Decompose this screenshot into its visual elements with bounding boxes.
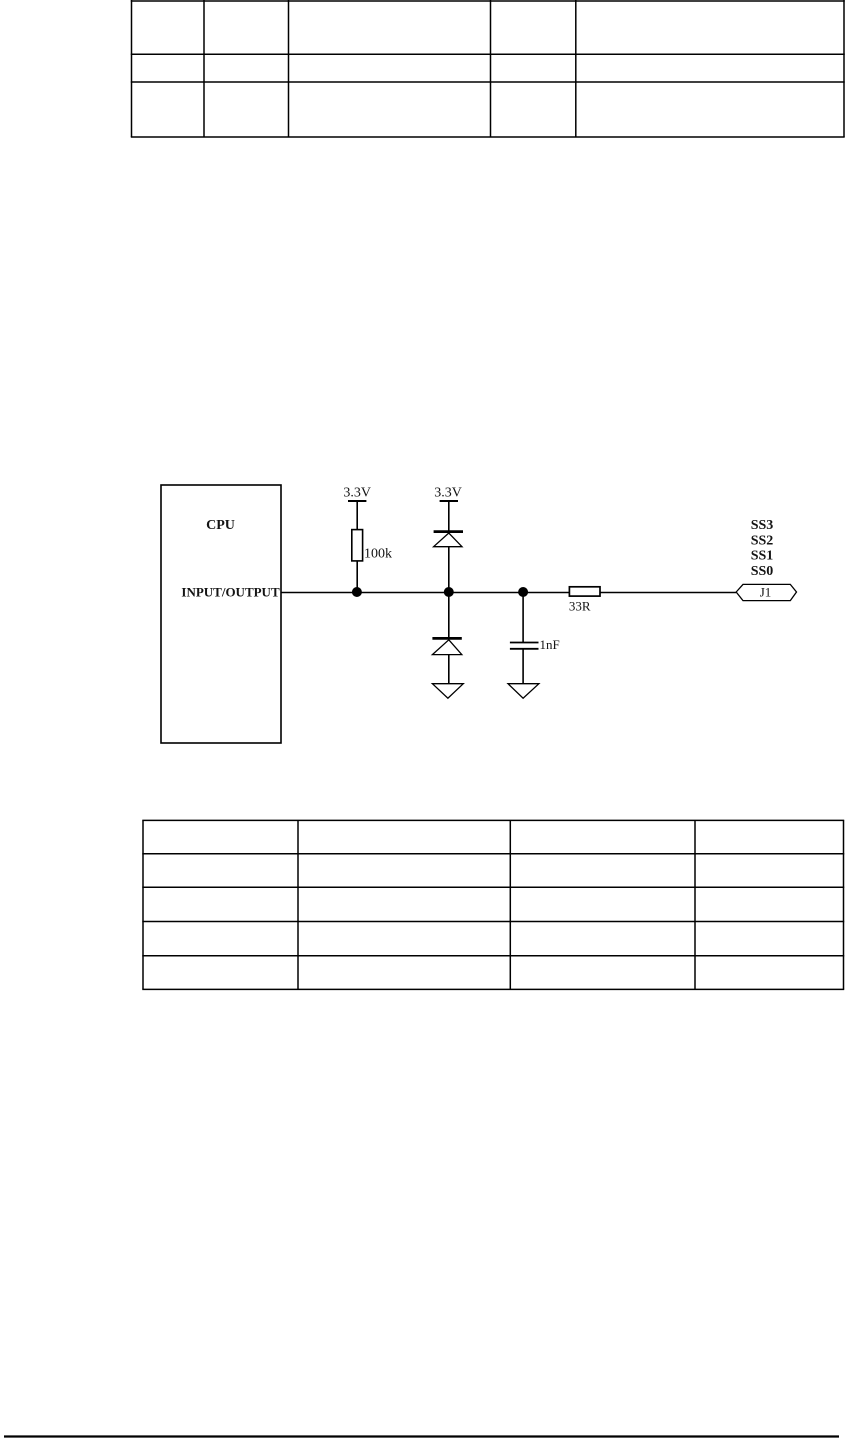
svg-text:INPUT/OUTPUT: INPUT/OUTPUT	[181, 584, 280, 599]
wire: CPU pin to resistor R2 33R	[281, 592, 569, 594]
value label 1nF	[540, 637, 560, 652]
svg-text:SS1: SS1	[751, 549, 774, 564]
junction node B (diodes to wire)	[444, 587, 454, 597]
svg-text:100k: 100k	[364, 547, 392, 562]
junction node A (resistor to wire)	[352, 587, 362, 597]
diode D1 (clamp to 3.3V, cathode up)	[434, 501, 463, 593]
connector J1 (off-page symbol)	[736, 584, 796, 600]
value label 100k	[364, 547, 392, 562]
svg-text:CPU: CPU	[206, 518, 235, 533]
value label 33R	[569, 599, 591, 614]
power symbol 3.3V (above upper clamp diode)	[434, 486, 462, 501]
capacitor C1 1nF	[510, 593, 539, 684]
svg-text:3.3V: 3.3V	[343, 486, 371, 501]
resistor R2 33R (series)	[569, 587, 600, 596]
svg-text:SS3: SS3	[751, 518, 774, 533]
ground symbol (below diode D2)	[432, 684, 463, 699]
svg-text:33R: 33R	[569, 599, 591, 614]
power symbol 3.3V (above resistor 100k)	[343, 486, 371, 501]
svg-text:SS0: SS0	[751, 564, 774, 579]
lower table (5 rows x 4 columns)	[142, 820, 844, 989]
top table (cut off at page top)	[131, 0, 845, 137]
ground symbol (below capacitor C1)	[508, 684, 539, 699]
svg-text:3.3V: 3.3V	[434, 486, 462, 501]
net labels SS3 SS2 SS1 SS0	[751, 518, 774, 579]
junction node C (capacitor to wire)	[518, 587, 528, 597]
resistor 100k (pull-up)	[352, 501, 363, 593]
INPUT/OUTPUT pin label	[181, 584, 280, 599]
svg-text:J1: J1	[760, 585, 772, 600]
svg-text:1nF: 1nF	[540, 637, 560, 652]
footer rule / page boundary line	[4, 1435, 839, 1437]
CPU label	[206, 518, 235, 533]
diode D2 (clamp to ground, cathode up)	[432, 593, 461, 684]
CPU block U1	[161, 485, 281, 743]
svg-text:SS2: SS2	[751, 533, 774, 548]
wire: resistor R2 to connector J1	[600, 592, 736, 594]
